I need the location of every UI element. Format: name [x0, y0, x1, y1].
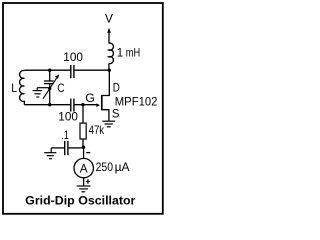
variable capacitor C branch [44, 70, 54, 105]
ground source [102, 121, 115, 127]
resistor 47k [82, 105, 84, 123]
meter A [74, 158, 93, 177]
svg-text:1: 1 [117, 45, 124, 59]
svg-text:.1: .1 [61, 128, 69, 142]
label minus [86, 152, 90, 154]
node dot C rotor [48, 87, 51, 90]
node dot tank top [48, 69, 51, 72]
wire .1 right to node [69, 147, 84, 149]
wire main top y70 left segment [24, 69, 70, 71]
node dot 47k top [81, 103, 84, 106]
ground tank [33, 88, 50, 97]
svg-text:A: A [80, 161, 88, 175]
border frame [3, 3, 163, 214]
ground meter [77, 186, 91, 192]
inductor L tank coil [20, 71, 25, 105]
svg-text:100: 100 [63, 50, 83, 64]
svg-text:S: S [112, 107, 120, 121]
transistor channel bar [101, 95, 103, 110]
svg-text:C: C [57, 81, 65, 95]
inductor 1 mH [109, 43, 114, 63]
label plus [86, 179, 91, 184]
capacitor .1 [65, 141, 68, 155]
wire supply arrow up [107, 28, 111, 44]
svg-text:250: 250 [96, 160, 114, 174]
wire meter to ground [83, 178, 85, 186]
transistor Q1 MPF102 JFET gate arrowhead [96, 103, 100, 107]
wire main top y70 right segment [75, 69, 110, 71]
arrow through C [43, 74, 59, 99]
svg-text:V: V [105, 12, 113, 26]
svg-text:D: D [113, 81, 120, 95]
svg-text:Grid-Dip Oscillator: Grid-Dip Oscillator [25, 193, 136, 207]
wire tank bottom right segment to gate [75, 104, 97, 106]
node dot drain top [108, 69, 111, 72]
svg-text:mH: mH [126, 45, 140, 59]
capacitor 100 top [71, 65, 74, 78]
svg-text:47k: 47k [89, 123, 105, 137]
capacitor 100 bottom [71, 99, 74, 112]
wire node to meter [83, 147, 85, 158]
svg-text:L: L [11, 81, 17, 95]
ground bypass [44, 148, 56, 159]
wire coil bottom to drain node [108, 64, 110, 71]
transistor drain lead [102, 70, 109, 95]
svg-text:G: G [85, 91, 95, 105]
wire tank bottom left segment [24, 104, 70, 106]
svg-text:100: 100 [58, 110, 78, 124]
node dot C bottom [48, 103, 51, 106]
svg-text:µA: µA [115, 160, 130, 174]
wire .1 left to ground [51, 147, 64, 149]
svg-text:MPF102: MPF102 [115, 94, 158, 108]
node dot meter top [82, 146, 85, 149]
transistor source lead [102, 110, 109, 121]
